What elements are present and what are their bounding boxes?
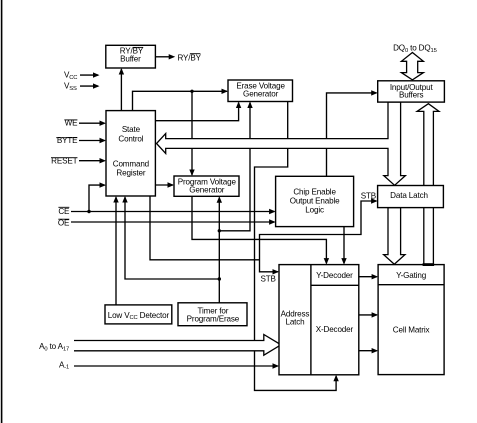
svg-text:Low VCC Detector: Low VCC Detector [108,311,170,321]
svg-text:State: State [122,125,141,134]
svg-text:Buffer: Buffer [120,55,141,64]
svg-text:Program/Erase: Program/Erase [187,314,240,323]
svg-text:Register: Register [116,168,145,177]
svg-text:Generator: Generator [243,90,279,99]
svg-text:Latch: Latch [285,317,304,326]
svg-text:STB: STB [361,192,376,201]
svg-text:Data Latch: Data Latch [390,191,428,200]
svg-text:RY/BY: RY/BY [178,53,202,62]
svg-text:Generator: Generator [189,185,225,194]
svg-text:DQ0 to DQ15: DQ0 to DQ15 [393,44,437,54]
svg-text:OE: OE [58,219,70,228]
svg-text:X-Decoder: X-Decoder [316,325,354,334]
svg-text:Chip Enable: Chip Enable [293,188,336,197]
svg-text:Logic: Logic [305,206,324,215]
svg-text:Cell Matrix: Cell Matrix [393,325,430,334]
svg-text:Command: Command [113,159,149,168]
svg-text:Y-Gating: Y-Gating [396,271,426,280]
svg-text:STB: STB [261,274,276,283]
svg-text:Buffers: Buffers [399,91,424,100]
svg-text:Control: Control [118,135,143,144]
svg-text:Output Enable: Output Enable [290,197,340,206]
svg-text:CE: CE [58,207,70,216]
svg-text:Y-Decoder: Y-Decoder [316,271,353,280]
